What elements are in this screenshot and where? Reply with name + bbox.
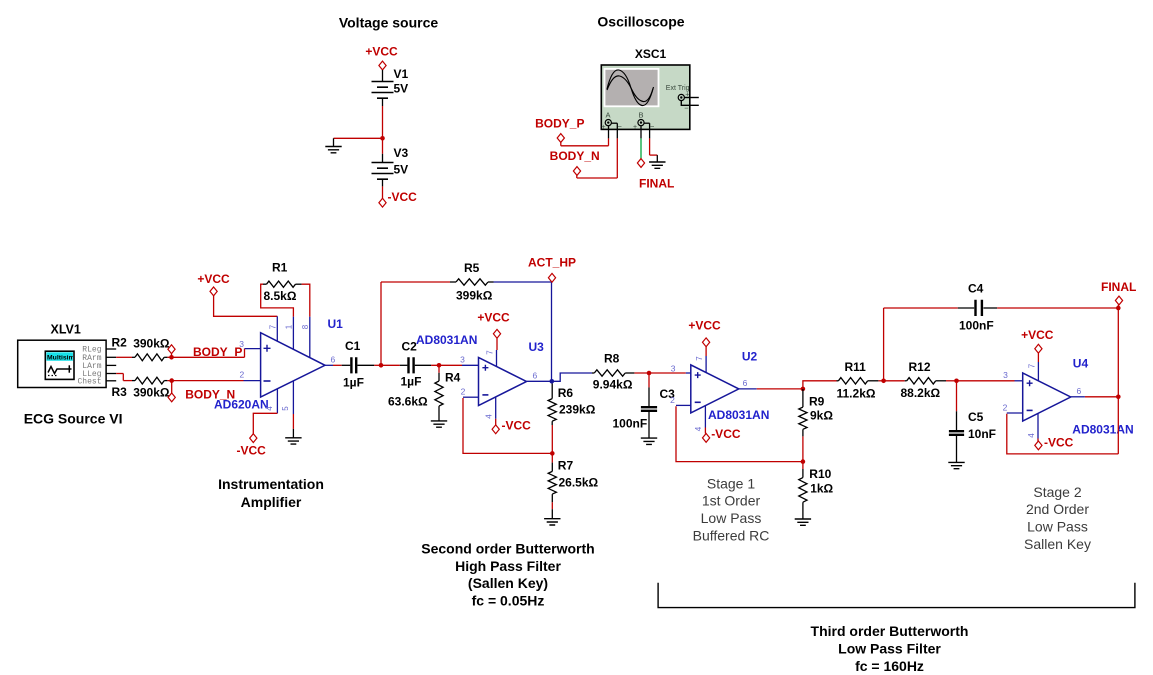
svg-text:+VCC: +VCC	[1021, 328, 1054, 342]
svg-text:Amplifier: Amplifier	[241, 494, 302, 510]
svg-text:AD8031AN: AD8031AN	[416, 333, 477, 347]
svg-text:R1: R1	[272, 261, 288, 275]
svg-text:1: 1	[284, 324, 293, 329]
svg-text:3: 3	[671, 363, 676, 373]
svg-text:C1: C1	[345, 339, 361, 353]
svg-text:High Pass Filter: High Pass Filter	[455, 558, 561, 574]
svg-text:63.6kΩ: 63.6kΩ	[388, 395, 428, 409]
svg-text:-VCC: -VCC	[502, 419, 532, 433]
svg-text:8: 8	[301, 324, 310, 329]
svg-text:Chest: Chest	[77, 377, 101, 386]
svg-text:A: A	[606, 111, 611, 120]
svg-text:10nF: 10nF	[968, 427, 996, 441]
svg-text:Buffered RC: Buffered RC	[693, 528, 770, 544]
svg-text:8.5kΩ: 8.5kΩ	[264, 289, 297, 303]
svg-text:2: 2	[239, 370, 244, 380]
svg-text:-VCC: -VCC	[237, 444, 267, 458]
svg-text:ACT_HP: ACT_HP	[528, 256, 576, 270]
svg-text:6: 6	[743, 378, 748, 388]
svg-text:Low Pass: Low Pass	[1027, 519, 1088, 535]
svg-text:−: −	[618, 122, 623, 131]
svg-text:390kΩ: 390kΩ	[133, 386, 170, 400]
svg-text:BODY_N: BODY_N	[550, 149, 600, 163]
svg-text:U1: U1	[328, 317, 344, 331]
svg-text:3: 3	[239, 339, 244, 349]
svg-text:9.94kΩ: 9.94kΩ	[593, 377, 633, 391]
svg-text:R3: R3	[112, 385, 128, 399]
svg-text:4: 4	[265, 406, 274, 411]
svg-text:fc = 0.05Hz: fc = 0.05Hz	[472, 592, 545, 608]
svg-text:100nF: 100nF	[613, 417, 648, 431]
svg-text:+VCC: +VCC	[477, 311, 510, 325]
svg-text:5V: 5V	[394, 163, 409, 177]
svg-text:BODY_P: BODY_P	[193, 345, 242, 359]
svg-text:−: −	[650, 122, 655, 131]
svg-text:−: −	[684, 104, 689, 113]
svg-text:6: 6	[331, 355, 336, 365]
svg-text:239kΩ: 239kΩ	[559, 403, 596, 417]
svg-text:390kΩ: 390kΩ	[133, 337, 170, 351]
svg-text:Multisim: Multisim	[47, 354, 75, 361]
svg-text:U4: U4	[1073, 357, 1089, 371]
svg-text:1kΩ: 1kΩ	[810, 482, 833, 496]
svg-text:7: 7	[268, 324, 277, 329]
svg-text:FINAL: FINAL	[1101, 280, 1136, 294]
svg-text:88.2kΩ: 88.2kΩ	[901, 386, 941, 400]
svg-text:4: 4	[694, 426, 703, 431]
svg-text:(Sallen Key): (Sallen Key)	[468, 575, 548, 591]
svg-text:4: 4	[1027, 433, 1036, 438]
svg-text:R6: R6	[558, 386, 574, 400]
svg-text:B: B	[639, 111, 644, 120]
svg-text:Third order Butterworth: Third order Butterworth	[811, 623, 969, 639]
svg-text:V3: V3	[394, 146, 409, 160]
svg-text:R4: R4	[445, 371, 461, 385]
svg-text:Sallen Key: Sallen Key	[1024, 536, 1091, 552]
svg-text:C2: C2	[402, 339, 418, 353]
svg-text:4: 4	[484, 414, 493, 419]
svg-text:BODY_P: BODY_P	[535, 116, 584, 130]
svg-text:+: +	[633, 124, 637, 131]
svg-text:R9: R9	[809, 395, 825, 409]
svg-text:100nF: 100nF	[959, 319, 994, 333]
svg-text:ECG Source VI: ECG Source VI	[24, 411, 123, 427]
svg-text:Instrumentation: Instrumentation	[218, 476, 324, 492]
svg-text:Low Pass Filter: Low Pass Filter	[838, 641, 941, 657]
svg-text:6: 6	[533, 370, 538, 380]
svg-text:AD620AN: AD620AN	[214, 398, 269, 412]
svg-text:fc = 160Hz: fc = 160Hz	[855, 658, 924, 674]
svg-text:Low Pass: Low Pass	[701, 510, 762, 526]
svg-text:7: 7	[1027, 363, 1036, 368]
svg-text:-VCC: -VCC	[1044, 436, 1074, 450]
svg-text:2: 2	[670, 395, 675, 405]
svg-text:+VCC: +VCC	[197, 272, 230, 286]
svg-text:R2: R2	[112, 336, 128, 350]
svg-text:5V: 5V	[394, 82, 409, 96]
svg-text:2: 2	[461, 386, 466, 396]
svg-text:1µF: 1µF	[401, 375, 422, 389]
svg-text:V1: V1	[394, 67, 409, 81]
svg-text:26.5kΩ: 26.5kΩ	[559, 475, 599, 489]
svg-text:6: 6	[1077, 386, 1082, 396]
svg-text:Stage 2: Stage 2	[1033, 484, 1081, 500]
svg-text:5: 5	[281, 406, 290, 411]
svg-text:1st Order: 1st Order	[702, 493, 761, 509]
svg-text:+VCC: +VCC	[365, 45, 398, 59]
svg-text:+: +	[602, 124, 606, 131]
svg-text:XSC1: XSC1	[635, 47, 667, 61]
svg-text:XLV1: XLV1	[51, 323, 81, 337]
svg-text:7: 7	[486, 350, 495, 355]
svg-text:R7: R7	[558, 459, 574, 473]
svg-text:9kΩ: 9kΩ	[810, 409, 833, 423]
svg-text:R5: R5	[464, 261, 480, 275]
svg-text:399kΩ: 399kΩ	[456, 289, 493, 303]
svg-text:Stage 1: Stage 1	[707, 475, 755, 491]
svg-text:2nd Order: 2nd Order	[1026, 501, 1089, 517]
svg-text:-VCC: -VCC	[388, 190, 418, 204]
svg-text:C5: C5	[968, 410, 984, 424]
svg-text:C4: C4	[968, 281, 984, 295]
svg-text:U2: U2	[742, 349, 758, 363]
svg-text:7: 7	[695, 356, 704, 361]
svg-text:R8: R8	[604, 352, 620, 366]
svg-text:3: 3	[1003, 370, 1008, 380]
svg-text:R12: R12	[909, 360, 931, 374]
svg-text:R11: R11	[845, 360, 867, 374]
svg-text:R10: R10	[809, 467, 831, 481]
svg-text:11.2kΩ: 11.2kΩ	[837, 387, 876, 401]
svg-text:Voltage source: Voltage source	[339, 15, 439, 31]
svg-text:U3: U3	[529, 340, 545, 354]
svg-text:3: 3	[460, 354, 465, 364]
svg-text:+VCC: +VCC	[688, 318, 721, 332]
svg-text:FINAL: FINAL	[639, 177, 674, 191]
svg-text:-VCC: -VCC	[711, 427, 741, 441]
svg-text:AD8031AN: AD8031AN	[1072, 423, 1133, 437]
svg-text:Second order Butterworth: Second order Butterworth	[421, 541, 594, 557]
svg-text:Oscilloscope: Oscilloscope	[597, 14, 684, 30]
svg-text:2: 2	[1003, 402, 1008, 412]
svg-text:AD8031AN: AD8031AN	[708, 408, 769, 422]
svg-text:1µF: 1µF	[343, 376, 364, 390]
